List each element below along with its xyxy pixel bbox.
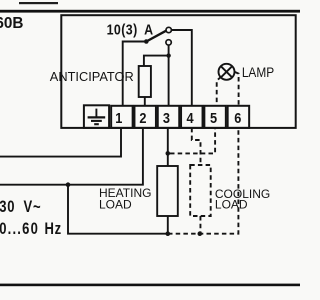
dashed wire: terminal 4 to cooling load top [192,128,201,165]
cooling load (dashed) [190,165,211,216]
switch contact circle bottom [166,40,171,45]
junction dot supply N [66,182,71,187]
svg-text:LOAD: LOAD [99,197,132,211]
label 60B (partially cut) [0,15,23,32]
label supply voltage 30 V~ [0,199,41,217]
ground symbol [88,109,106,125]
wire: junction down and right along bottom [68,185,168,234]
top partial text remnant [19,2,58,4]
dashed wire: cooling load bottom [199,216,201,234]
switch blade [146,31,166,42]
switch pivot dot [144,39,149,44]
svg-text:60B: 60B [0,15,23,32]
wire: heating load bottom [167,216,169,234]
svg-text:10(3)A: 10(3)A [107,22,154,38]
dashed wire: bottom run to terminal 6 [168,128,238,234]
junction dot heating bottom [166,231,171,236]
terminal gnd box [84,105,109,128]
terminal box 1 [111,106,132,128]
junction dot heating top [166,151,171,156]
wire: terminal 2 down to supply N [0,128,143,185]
lamp L1 [219,64,235,80]
svg-text:6: 6 [234,109,241,126]
wire: bottom contact down to terminal 3 [168,45,170,106]
wire: top contact to terminal 4 [172,30,192,106]
dashed wire lamp to terminal 6 [235,72,239,105]
dashed wire lamp to terminal 5 [217,77,222,106]
terminal box 3 [158,106,180,128]
junction dot cooling bottom [198,231,203,236]
svg-text:4: 4 [186,109,193,126]
bottom rule [0,284,300,287]
svg-text:5: 5 [210,109,217,126]
label LAMP [242,64,274,80]
svg-text:LOAD: LOAD [215,198,248,212]
svg-text:3: 3 [163,109,170,126]
thermostat enclosure box [61,15,295,128]
terminal digits 1-6 [115,109,241,126]
label supply frequency 0...60 Hz [0,221,62,239]
top rule [0,10,300,13]
terminal box 2 [134,106,156,128]
heating load resistor [157,166,178,216]
svg-text:0...60Hz: 0...60Hz [0,221,62,239]
junction dot anticipator [166,53,170,57]
wire: resistor bottom to terminal 2 [144,97,146,106]
terminal box 5 [204,106,226,128]
wire: terminal 1 down to supply L [0,128,121,157]
svg-text:1: 1 [115,109,122,126]
svg-text:LAMP: LAMP [242,64,274,80]
wire: junction to resistor top [144,56,169,66]
terminal box 4 [181,106,203,128]
dashed wire: heating junction to terminal 5 [170,128,215,153]
wire: terminal 3 down to heating load [167,128,169,166]
svg-text:ANTICIPATOR: ANTICIPATOR [50,69,134,84]
label 10(3) A [107,22,154,38]
terminal box 6 [228,106,250,128]
wire: terminal 1 up to switch pivot [123,42,145,106]
switch contact circle top [166,27,171,32]
anticipator resistor [139,66,151,97]
svg-text:2: 2 [139,109,146,126]
